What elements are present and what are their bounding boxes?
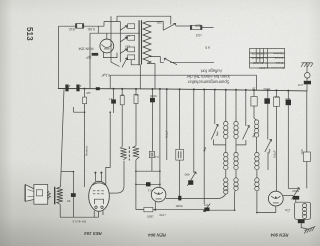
label RGN 354 [79,47,94,51]
svg-text:Gemessen mit 220V: Gemessen mit 220V [259,66,284,70]
svg-text:50: 50 [135,93,139,97]
capacitor hanging x288.3 [287,90,289,92]
resistor hanging x122.2 [121,88,123,90]
svg-text:220: 220 [195,23,201,27]
resonant loop [295,202,311,219]
label Ca [285,208,290,212]
voltage table [250,49,285,69]
svg-text:2μF: 2μF [76,84,82,88]
svg-text:0,5μF: 0,5μF [273,150,277,158]
coil column B lower [234,152,238,190]
AF transformer core dashes [128,147,130,161]
svg-text:Netzton: Netzton [85,145,89,156]
capacitor on bus x67 [65,85,68,92]
band switch arrow 1 [211,124,218,139]
voice coil zigzag [47,191,50,199]
earth symbol top right [302,62,313,64]
wire long left vertical bus to speaker transformer [61,89,65,187]
svg-text:0,5: 0,5 [203,203,208,207]
wire link y144.9 left [213,140,226,145]
wire right stub down [97,26,99,33]
left column stub y112.2 [73,107,84,112]
svg-text:Zwisch.: Zwisch. [274,56,284,60]
mains switch arrow lower [164,58,177,65]
wire secondary bottom step [150,57,165,63]
wire AF left bottom [105,161,124,193]
svg-text:400: 400 [184,173,189,177]
wire mains top line [117,16,171,24]
wire drop x73.4 with cathode capacitor [72,172,74,218]
grid dashes inside tube [93,190,104,192]
heater line above bus [110,75,256,90]
note text block (upside down) [186,69,230,85]
svg-text:220: 220 [156,20,162,24]
wire right column down [306,91,308,152]
svg-text:a b: a b [205,46,210,50]
wire x90 vertical to bus [89,33,91,88]
wire detector cathode to rail [154,202,156,210]
wire secondary bottom to bus [147,63,155,88]
svg-text:150: 150 [125,45,130,49]
wire tube anode right [283,194,293,196]
tap feed wire pair [104,16,120,62]
svg-text:RES 164: RES 164 [84,231,102,236]
trimmer on rail left [203,204,210,212]
boxed capacitor x179.6 [179,88,181,90]
svg-text:912-: 912- [68,27,75,31]
svg-text:10: 10 [121,93,125,97]
svg-text:10: 10 [252,86,256,90]
bottom rail left [136,209,204,211]
resistor hanging x89.5 [84,88,86,90]
capacitor hanging x113.5 [113,88,115,90]
svg-text:1500: 1500 [147,215,154,219]
resistor R top-left on feed line [76,24,84,29]
wire left vertical to bus [57,26,59,88]
wire stub y171.2 [136,170,160,172]
svg-text:100: 100 [285,97,290,101]
svg-text:0,1: 0,1 [154,155,159,159]
page number 513 [25,27,34,41]
resistor hanging x254 [253,89,255,91]
svg-text:225: 225 [251,52,256,56]
wire into resonant loop [295,200,297,203]
svg-text:1W: 1W [86,91,91,95]
svg-text:Auflage fort: Auflage fort [200,69,222,74]
transformer primary winding sections [128,24,135,29]
resistor hanging x276.4 to tube [275,89,277,91]
output transformer core [54,187,56,205]
svg-text:ℓ: ℓ [203,145,207,152]
svg-text:513: 513 [25,27,34,41]
anode plate inside tube [95,199,104,204]
wire transformer bottom to bus [131,60,140,89]
svg-text:0,08-: 0,08- [87,27,95,31]
svg-text:5000: 5000 [150,94,157,98]
svg-text:Abstimm.: Abstimm. [272,52,284,56]
label a b [205,46,210,50]
label REN 904 under detector [148,232,166,237]
grid cap arrow [187,172,196,186]
coil column C [254,120,259,191]
svg-text:2μF: 2μF [65,84,71,88]
wire to ground [301,223,307,229]
wire AF right bottom long [135,160,137,210]
capacitor 2uF beside rectifier [92,53,99,56]
loop in antenna lead [305,73,311,79]
AF transformer right winding [133,146,139,160]
wire coupling line to output tube grid [106,112,110,184]
transformer secondary winding zigzag [143,22,151,64]
mains switch arrow upper [163,23,176,30]
label RES 164 [84,231,102,236]
svg-text:0,1: 0,1 [274,95,279,99]
tap selector arrows [120,26,127,31]
svg-text:≈0,9: ≈0,9 [196,33,202,37]
output transformer winding [57,187,63,204]
wire x159.9 down to tube [159,88,161,90]
svg-text:5000: 5000 [175,204,182,208]
coil column A upper [225,89,227,91]
wire coil A bottom to signal line [166,194,226,198]
wire top-left horizontal feed [58,25,104,27]
svg-text:100: 100 [300,149,304,154]
speaker magnet [36,190,42,196]
wire coil C bottom rail [257,191,276,213]
output tube RES 164 oval [89,181,110,211]
primary tap labels [125,34,130,38]
tiny label on heater wire [72,220,86,224]
svg-text:110: 110 [251,56,256,60]
svg-text:5000: 5000 [292,189,299,193]
grid and anode top pins of output tube [95,173,101,182]
svg-text:REN 904: REN 904 [270,233,288,238]
heater wire bottom left [60,216,98,218]
capacitor hanging x152.4 [151,88,153,90]
junction dots [73,111,258,213]
filament loop wire [103,52,117,58]
junction bar on bus x97.8 [96,87,100,90]
value label left of R [68,27,75,31]
ground symbol bottom right [305,226,316,230]
wire stub x104 [103,22,105,27]
wire mains lead lower [170,61,214,63]
wire to fuse [176,25,191,27]
rectifier tube RGN 354 [100,39,114,53]
boxed capacitor 1 [149,151,154,157]
svg-text:3W 4Ω 0,5: 3W 4Ω 0,5 [72,220,86,224]
svg-text:RGN 354: RGN 354 [79,47,94,51]
svg-text:0,1μF: 0,1μF [102,73,111,77]
fuse [190,25,202,29]
wire stub y184.3 with series capacitor [136,183,160,185]
speaker box [34,185,48,205]
trimmer capacitor right [292,188,300,200]
T bar y171.6 [61,171,74,173]
svg-text:0,1μF: 0,1μF [165,130,169,138]
output tube REN 904 right [268,191,283,206]
svg-text:+700: +700 [159,213,166,217]
svg-text:Ca: Ca [285,208,290,212]
band switch arrow 2 [243,125,250,139]
svg-text:α=5: α=5 [298,83,304,87]
resistor in right column [303,152,310,162]
label REN 904 under right tube [270,233,288,238]
coil column B upper [235,89,237,91]
value label right of R [87,27,95,31]
svg-text:2μF: 2μF [86,56,92,60]
svg-text:Spannungsumschalter: Spannungsumschalter [187,80,229,85]
resistor 1500 on rail [144,207,153,211]
svg-text:ℓ: ℓ [216,130,220,137]
wire x84.5 with vertical label [84,112,86,187]
svg-text:50: 50 [67,199,71,203]
wire x214.8 [214,89,216,91]
svg-text:5000: 5000 [263,87,270,91]
winding leads [59,187,62,217]
coil inside loop [303,204,307,219]
detector tube REN 904 [151,187,166,202]
wire cap to bus [306,84,308,91]
wire x166.8 with label [166,88,168,90]
coil column A lower [224,152,228,194]
label 220 [156,20,162,24]
capacitor below loop [298,220,305,224]
wire x193.8 grid feed [193,88,195,90]
wire secondary top lead [147,22,163,31]
resistor hanging x136 [135,88,137,90]
svg-text:REN 904: REN 904 [148,232,166,237]
capacitor hanging x267.8 [267,89,269,91]
wire antenna stem [306,63,308,73]
wire y33 line to transformer [90,32,140,34]
speaker cone [25,185,34,202]
capacitor on bus x78 [76,85,79,92]
band switch arrow 3 [265,139,272,152]
wire mains lead upper [202,26,214,28]
AF transformer left winding [120,147,126,160]
wire x204.2 [203,89,205,91]
capacitor 5000 on box lead at signal line [178,196,181,201]
svg-text:Endst.: Endst. [275,61,283,65]
main bus [58,89,308,91]
wire link y144.9 right [236,140,246,145]
tube pins [94,211,103,218]
svg-text:47: 47 [109,97,113,101]
transformer core [139,20,141,64]
wire coil B bottom to rail [234,190,236,210]
antenna series capacitor [304,81,311,85]
